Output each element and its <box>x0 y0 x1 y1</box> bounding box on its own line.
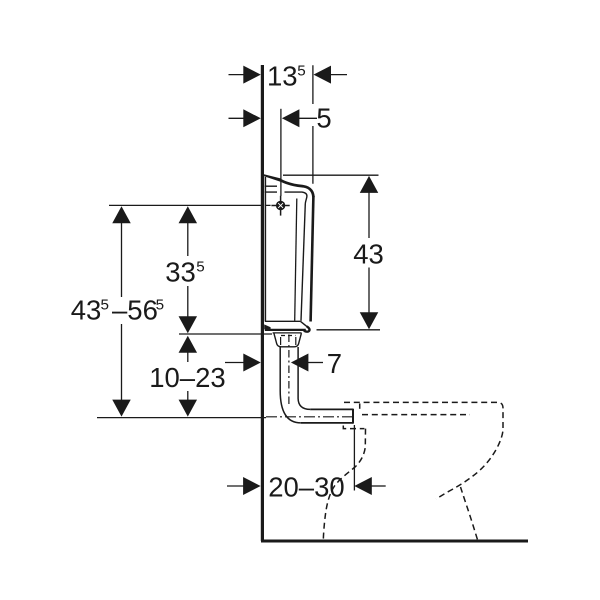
dim 7 right arrow tail <box>307 362 323 364</box>
dim 33.5 line upper <box>187 222 189 256</box>
dim 7 tail left <box>225 362 245 364</box>
svg-text:43: 43 <box>71 294 102 325</box>
dim 5 right arrow tail <box>298 117 317 119</box>
flush pipe elbow outer <box>280 391 301 423</box>
dim 10-23 bottom arrowhead <box>179 400 198 417</box>
dim 5 extension line <box>280 109 282 196</box>
dim 13.5 right arrow tail <box>330 74 348 76</box>
cistern lid front curve <box>281 180 314 197</box>
pipe vertical centerline <box>288 335 290 408</box>
dim 33.5 top arrowhead <box>179 206 198 223</box>
dim 7 left arrowhead <box>243 354 260 372</box>
dim 43 line upper <box>368 193 370 239</box>
dim 20-30 right arrow tail <box>371 485 386 487</box>
dim 13.5 left arrowhead <box>243 66 260 84</box>
dim 43 bottom extension line <box>317 329 381 331</box>
svg-text:5: 5 <box>156 296 164 313</box>
flush pipe horizontal top <box>310 408 353 410</box>
toilet front / pedestal left dashed <box>323 429 365 541</box>
dim 43 top arrowhead <box>360 176 379 193</box>
svg-text:5: 5 <box>316 102 331 133</box>
dim 20-30 left arrowhead <box>243 477 261 495</box>
fixing screw cross vertical <box>280 196 282 216</box>
floor line <box>261 540 528 543</box>
dim 33.5 bottom arrowhead <box>179 316 198 333</box>
flush valve cup body <box>274 333 302 347</box>
base flange top slant <box>300 321 308 327</box>
cistern lid bottom line <box>265 185 277 187</box>
flush pipe vertical right <box>297 347 299 399</box>
pipe axis extension line <box>97 417 266 419</box>
fixing screw cross horizontal <box>271 205 289 207</box>
flush pipe horizontal bottom <box>301 422 353 424</box>
cistern bottom line <box>265 320 301 322</box>
dim 20-30 tail left <box>227 485 245 487</box>
svg-text:33: 33 <box>165 257 196 288</box>
dim 10-23 line lower <box>187 391 189 401</box>
svg-text:43: 43 <box>353 238 384 269</box>
svg-text:20–30: 20–30 <box>268 472 344 503</box>
dim 20-30 right arrowhead <box>354 477 372 495</box>
cistern bottom extension line <box>179 333 272 335</box>
dim 10-23 line upper <box>187 352 189 362</box>
svg-text:13: 13 <box>267 60 298 91</box>
dim 43.5-56.5 line lower <box>121 324 123 401</box>
dim 7 right arrowhead <box>291 354 309 372</box>
dim 10-23 top arrowhead <box>179 336 198 353</box>
svg-text:5: 5 <box>196 258 204 275</box>
flush valve cup inner walls <box>281 337 296 345</box>
svg-text:7: 7 <box>327 348 342 379</box>
pipe horizontal centerline <box>266 416 353 418</box>
svg-text:10–23: 10–23 <box>149 362 225 393</box>
dim 43.5-56.5 top arrowhead <box>112 206 131 223</box>
flush pipe elbow inner <box>298 399 310 410</box>
dim 13.5 right extension line <box>312 65 314 183</box>
dim 13.5 tail left <box>229 74 246 76</box>
toilet inner rim line dashed <box>362 414 470 416</box>
dim 13.5 right arrowhead <box>314 66 332 84</box>
dim 43.5-56.5 line upper <box>121 222 123 297</box>
cistern tank top line <box>265 192 307 203</box>
base flange bottom <box>265 329 306 331</box>
fixing screw head <box>276 201 285 210</box>
flush valve cup inner dashes <box>281 335 296 337</box>
dim 43 line lower <box>368 268 370 314</box>
base flange left shadow <box>264 324 270 329</box>
toilet spigot top dash <box>359 404 361 409</box>
toilet bowl rim outline dashed <box>344 402 503 499</box>
dim 43 bottom arrowhead <box>360 312 379 329</box>
cistern inner line <box>295 199 297 321</box>
wall line <box>261 65 264 541</box>
flush valve cup top line <box>273 332 302 334</box>
dim 5 tail left <box>229 117 246 119</box>
flush pipe vertical left <box>279 347 281 391</box>
dim 5 right arrowhead <box>282 109 300 127</box>
cistern lid top wedge <box>264 174 281 181</box>
dim 43 top extension line <box>283 174 379 176</box>
dim 20-30 extension line <box>353 425 355 491</box>
cistern front face line <box>311 196 314 322</box>
dim 43.5-56.5 bottom arrowhead <box>112 400 131 417</box>
svg-text:–56: –56 <box>112 294 158 325</box>
svg-text:5: 5 <box>297 62 305 79</box>
toilet below-pipe line dashed <box>343 426 364 429</box>
svg-text:5: 5 <box>101 296 109 313</box>
cistern tank back line <box>264 177 266 321</box>
screw height extension line <box>109 204 271 206</box>
cistern front inner line <box>301 204 305 321</box>
toilet pedestal right dashed <box>461 487 478 540</box>
dim 33.5 line lower <box>187 286 189 318</box>
base flange right tip <box>304 326 310 331</box>
dim 5 left arrowhead <box>243 109 260 127</box>
flush pipe end cap <box>352 409 354 424</box>
